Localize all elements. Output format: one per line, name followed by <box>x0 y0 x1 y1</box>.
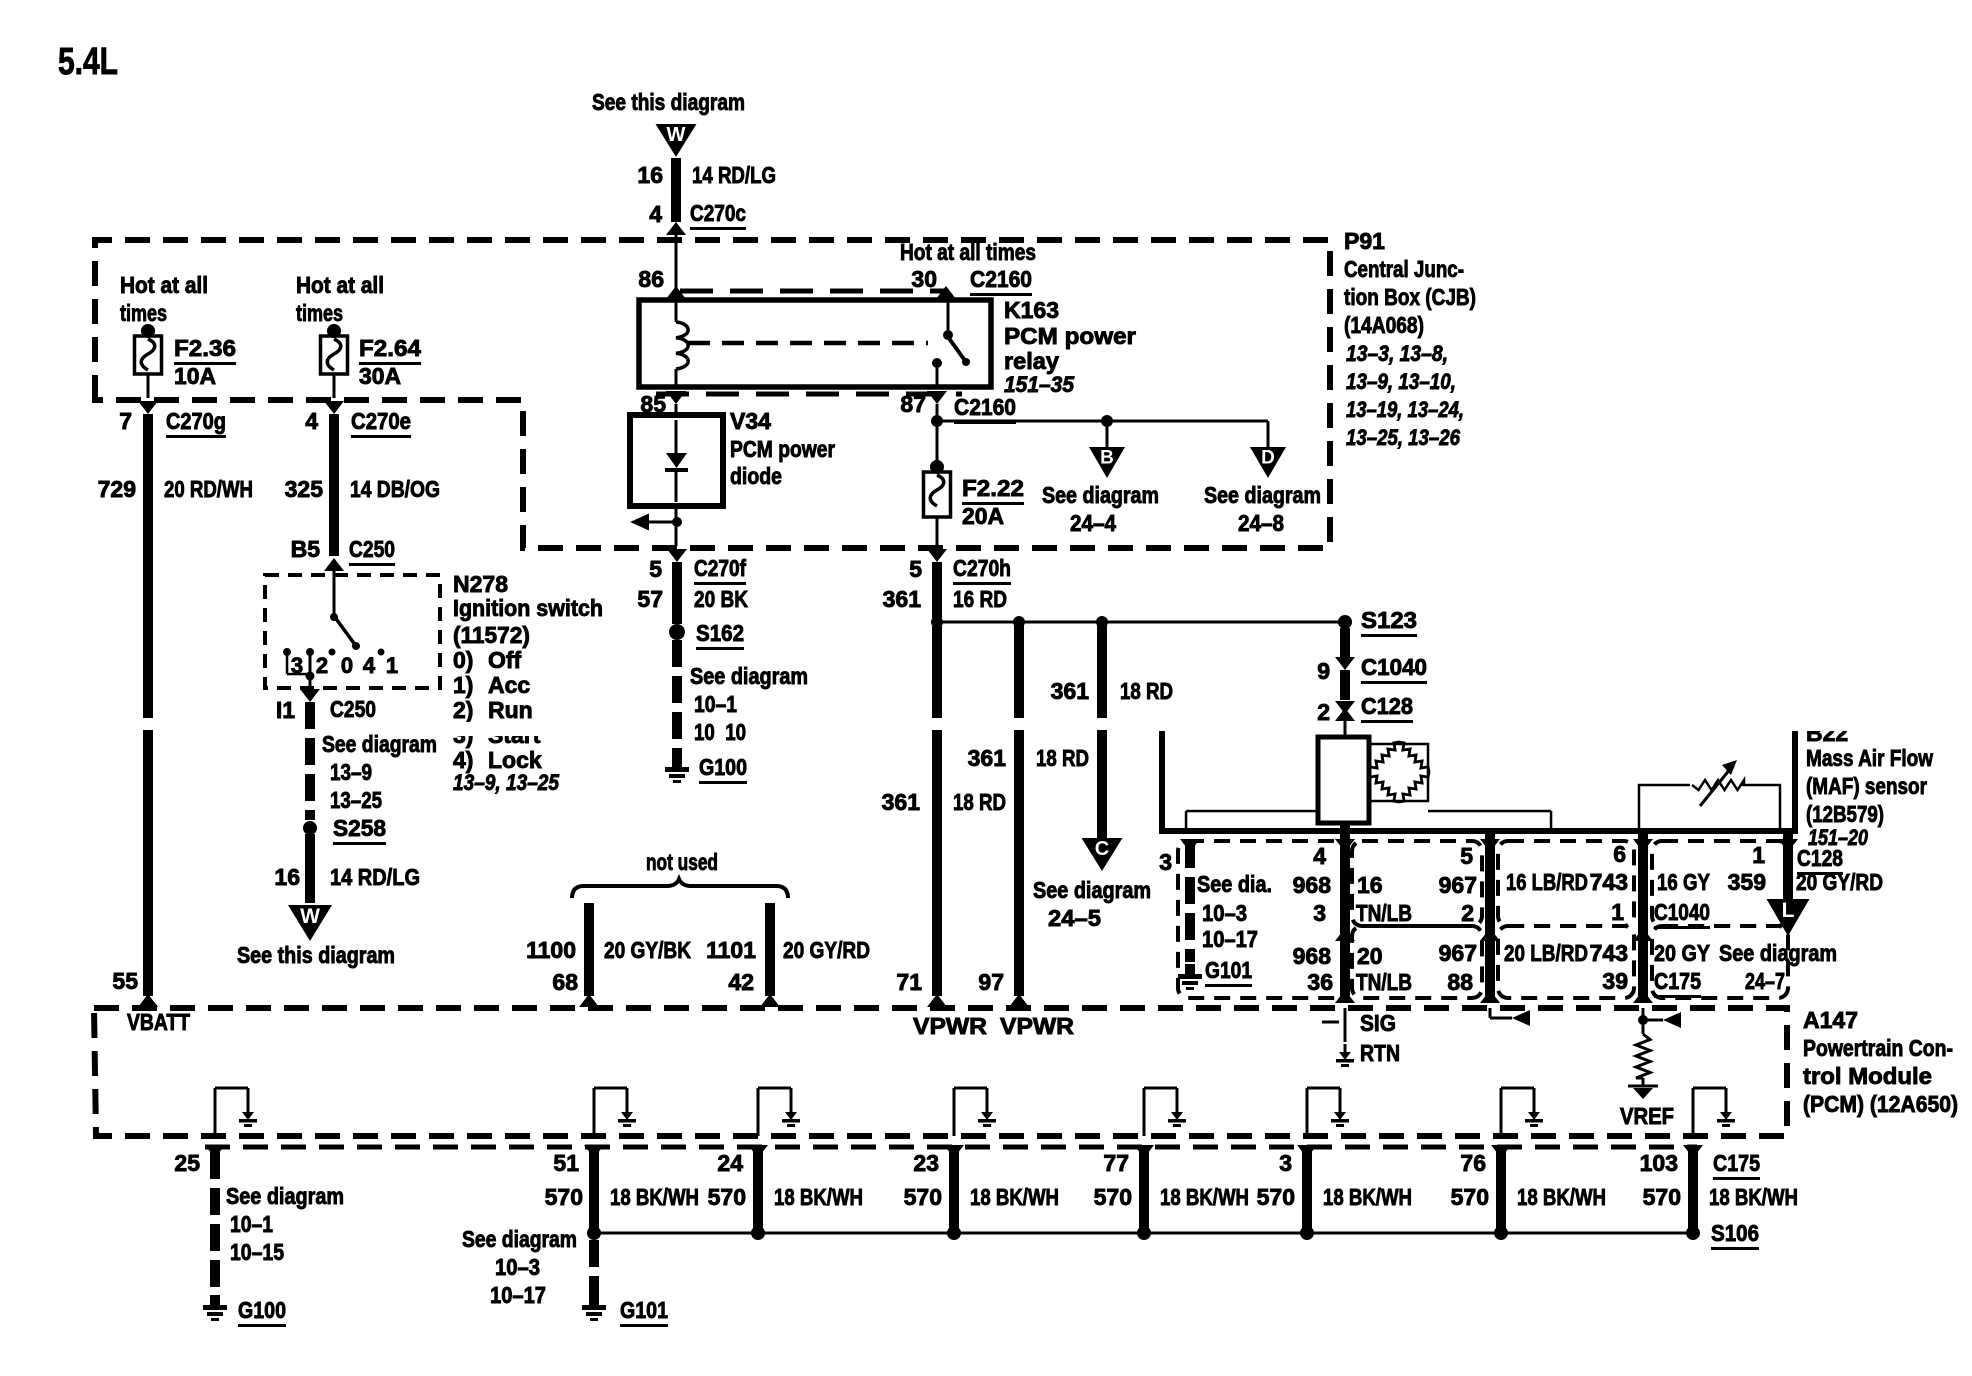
svg-text:2: 2 <box>1461 900 1474 926</box>
svg-text:See diagram: See diagram <box>1042 482 1159 508</box>
svg-text:Mass Air Flow: Mass Air Flow <box>1806 745 1933 771</box>
svg-text:10A: 10A <box>174 363 216 389</box>
svg-text:14 RD/LG: 14 RD/LG <box>330 864 420 890</box>
arrow pin4 row2 <box>1335 928 1355 941</box>
relay switch blade <box>948 337 966 362</box>
svg-text:F2.64: F2.64 <box>359 335 421 361</box>
connector L triangle <box>1767 899 1810 936</box>
svg-text:See diagram: See diagram <box>1204 482 1321 508</box>
svg-text:24: 24 <box>717 1150 743 1176</box>
dashed connector line above relay <box>680 289 944 294</box>
svg-text:967: 967 <box>1439 872 1477 898</box>
svg-text:30: 30 <box>911 266 937 292</box>
wire 361 16 RD <box>932 562 942 618</box>
wire C270c to relay coil <box>675 234 678 322</box>
VPWR distribution wire <box>937 621 1345 624</box>
svg-text:361: 361 <box>968 745 1007 771</box>
svg-text:570: 570 <box>1094 1184 1132 1210</box>
svg-text:68: 68 <box>552 969 578 995</box>
svg-text:20: 20 <box>1357 943 1383 969</box>
svg-text:18 BK/WH: 18 BK/WH <box>970 1184 1059 1210</box>
svg-text:See this diagram: See this diagram <box>237 942 395 968</box>
label minus <box>1322 1021 1339 1024</box>
svg-text:4: 4 <box>649 201 662 227</box>
wire 85 to diode <box>675 404 678 417</box>
arrow into C1040 <box>1335 657 1355 670</box>
svg-text:C128: C128 <box>1361 693 1413 719</box>
wire coil to relay bottom <box>675 369 678 387</box>
svg-text:359: 359 <box>1728 869 1766 895</box>
svg-text:16: 16 <box>274 864 300 890</box>
connector W triangle <box>656 124 697 157</box>
wire diode to CJB edge <box>675 506 678 546</box>
svg-text:times: times <box>120 300 167 326</box>
svg-text:C270e: C270e <box>351 408 411 434</box>
svg-text:Run: Run <box>488 697 533 723</box>
diode symbol <box>675 420 678 453</box>
wire 729 20 RD/WH (VBATT) upper <box>143 414 153 718</box>
svg-text:325: 325 <box>285 476 324 502</box>
ground SIG RTN <box>1344 1044 1347 1052</box>
svg-text:(11572): (11572) <box>453 622 530 648</box>
connector cell D row2 <box>1652 926 1788 998</box>
svg-text:See diagram: See diagram <box>690 663 808 689</box>
svg-text:Hot at all times: Hot at all times <box>900 239 1036 265</box>
wire to C triangle upper <box>1097 622 1107 718</box>
wire pin 51 <box>589 1150 599 1233</box>
svg-text:VPWR: VPWR <box>913 1013 987 1039</box>
svg-text:18 BK/WH: 18 BK/WH <box>1323 1184 1412 1210</box>
svg-text:C175: C175 <box>1713 1150 1760 1176</box>
MAF variable resistor zigzag <box>1692 780 1744 790</box>
svg-text:18 BK/WH: 18 BK/WH <box>1517 1184 1606 1210</box>
svg-text:20 GY/RD: 20 GY/RD <box>783 937 870 963</box>
ground bus S106 <box>594 1232 1693 1235</box>
svg-text:25: 25 <box>174 1150 200 1176</box>
wire VPWR pin 97 upper <box>1014 622 1024 718</box>
splice S123 <box>1338 615 1352 629</box>
svg-text:16: 16 <box>1357 872 1383 898</box>
svg-text:10–3: 10–3 <box>1202 900 1247 926</box>
svg-text:6: 6 <box>1613 841 1626 867</box>
relay switch contact 30 <box>943 330 953 340</box>
svg-text:PCM power: PCM power <box>1004 323 1136 349</box>
fuse F2.64 <box>321 336 348 374</box>
svg-text:968: 968 <box>1293 943 1332 969</box>
wire down to D triangle <box>1267 421 1270 447</box>
svg-text:VBATT: VBATT <box>127 1009 190 1035</box>
stub 743 input <box>1638 1015 1648 1025</box>
svg-text:W: W <box>300 905 320 928</box>
ground G101 (bottom) <box>589 1295 599 1305</box>
svg-text:9: 9 <box>1317 658 1330 684</box>
svg-text:3: 3 <box>1313 900 1326 926</box>
junction dot B branch <box>1101 415 1113 427</box>
wire down to B triangle <box>1106 421 1109 447</box>
svg-text:K163: K163 <box>1004 297 1059 323</box>
svg-text:361: 361 <box>883 586 922 612</box>
svg-text:20 BK: 20 BK <box>694 586 748 612</box>
svg-text:5: 5 <box>909 556 922 582</box>
svg-text:13–25: 13–25 <box>330 787 382 813</box>
svg-text:diode: diode <box>730 463 782 489</box>
MAF element inner box <box>1369 744 1428 801</box>
junction dot G101 wire <box>587 1226 601 1240</box>
svg-text:729: 729 <box>98 476 136 502</box>
svg-text:2): 2) <box>453 697 473 723</box>
svg-text:14 RD/LG: 14 RD/LG <box>692 162 776 188</box>
svg-text:B: B <box>1100 447 1114 468</box>
svg-text:(MAF) sensor: (MAF) sensor <box>1806 773 1927 799</box>
MAF thermistor diamond <box>1369 742 1429 802</box>
wire from contact 3 down <box>309 652 312 688</box>
svg-text:SIG: SIG <box>1360 1010 1396 1036</box>
MAF variable resistor box <box>1639 785 1780 831</box>
svg-text:See diagram: See diagram <box>462 1226 577 1252</box>
connector cell A (pins 3/4) <box>1178 841 1343 998</box>
svg-text:24–7: 24–7 <box>1745 968 1785 994</box>
svg-text:18 RD: 18 RD <box>953 789 1006 815</box>
wire SIG RTN <box>1344 1008 1347 1042</box>
fuse F2.36 <box>135 336 162 374</box>
junction dot branch C <box>1096 616 1108 628</box>
svg-text:967: 967 <box>1439 940 1477 966</box>
svg-text:See this diagram: See this diagram <box>592 89 745 115</box>
svg-text:18 RD: 18 RD <box>1036 745 1089 771</box>
svg-text:G101: G101 <box>620 1297 668 1323</box>
connector C triangle <box>1082 838 1123 871</box>
svg-text:Hot at all: Hot at all <box>296 272 384 298</box>
arrow pin4 row1 <box>1335 839 1355 852</box>
relay switch terminal 87 <box>932 358 942 368</box>
svg-text:4: 4 <box>363 653 376 678</box>
wire I1 to S258 dashed <box>305 702 315 729</box>
diode V34 box <box>630 415 723 506</box>
svg-text:39: 39 <box>1602 968 1628 994</box>
svg-text:See diagram: See diagram <box>322 731 437 757</box>
svg-text:570: 570 <box>1451 1184 1489 1210</box>
MAF sensing element box <box>1318 737 1369 823</box>
svg-text:C270c: C270c <box>690 200 746 226</box>
switch contact dots <box>329 649 336 656</box>
svg-text:570: 570 <box>1643 1184 1681 1210</box>
svg-text:743: 743 <box>1590 869 1628 895</box>
svg-text:See dia.: See dia. <box>1197 871 1272 897</box>
wire 14 RD/LG from W <box>671 158 681 222</box>
arrow continue left <box>646 521 677 524</box>
svg-text:88: 88 <box>1447 969 1473 995</box>
svg-text:I1: I1 <box>276 697 295 723</box>
wire MAF pin4 968 <box>1340 823 1350 996</box>
wire 51 to G101 dashed <box>589 1240 599 1267</box>
svg-text:Central Junc-: Central Junc- <box>1344 256 1464 282</box>
svg-text:See diagram: See diagram <box>1033 877 1151 903</box>
svg-text:(PCM) (12A650): (PCM) (12A650) <box>1803 1091 1958 1117</box>
svg-text:N278: N278 <box>453 571 508 597</box>
connector cell B row1 (pin 5) <box>1352 841 1482 926</box>
svg-text:Hot at all: Hot at all <box>120 272 208 298</box>
splice S258 <box>303 821 317 835</box>
arrow pin6 pcm <box>1633 990 1653 1003</box>
svg-text:13–3, 13–8,: 13–3, 13–8, <box>1346 341 1448 366</box>
junction dot VPWR 2 <box>1013 616 1025 628</box>
svg-text:968: 968 <box>1293 872 1332 898</box>
svg-text:14 DB/OG: 14 DB/OG <box>350 476 440 502</box>
svg-text:C175: C175 <box>1654 968 1701 994</box>
wire MAF pin3 to G101 dashed <box>1185 841 1195 868</box>
arrow out of CJB at C270f <box>667 549 687 562</box>
arrow into C250 ignition switch <box>324 558 344 571</box>
svg-text:TN/LB: TN/LB <box>1356 969 1412 995</box>
wire 87 to junction <box>936 404 939 421</box>
arrow out of CJB at C270e <box>324 401 344 414</box>
svg-text:103: 103 <box>1640 1150 1678 1176</box>
svg-text:77: 77 <box>1103 1150 1129 1176</box>
svg-text:10–17: 10–17 <box>490 1282 546 1308</box>
svg-text:16 GY: 16 GY <box>1657 869 1710 895</box>
svg-text:57: 57 <box>637 586 663 612</box>
svg-text:S258: S258 <box>333 815 386 841</box>
svg-text:G101: G101 <box>1205 957 1252 983</box>
svg-text:See diagram: See diagram <box>1719 940 1837 966</box>
svg-text:13–19, 13–24,: 13–19, 13–24, <box>1346 397 1464 422</box>
wire S123 down <box>1340 628 1350 658</box>
connector cell D row1 (pin 1) <box>1652 841 1788 926</box>
wire VPWR pin 71 upper <box>932 626 942 718</box>
svg-text:10–1: 10–1 <box>694 691 737 717</box>
svg-text:87: 87 <box>900 391 926 417</box>
svg-text:18 RD: 18 RD <box>1120 678 1173 704</box>
svg-text:42: 42 <box>728 969 754 995</box>
wire C1040 to C128 <box>1340 670 1350 700</box>
wire 1100 20 GY/BK <box>584 903 594 996</box>
switch contact terminals pin 3 <box>283 648 291 656</box>
svg-text:13–9, 13–25: 13–9, 13–25 <box>453 770 560 795</box>
svg-text:10–1: 10–1 <box>230 1211 273 1237</box>
Central Junction Box P91 dashed outline <box>95 240 1330 548</box>
arrow pin5 pcm <box>1480 990 1500 1003</box>
wire to C triangle lower <box>1097 730 1107 838</box>
relay internal dashed link <box>688 341 928 346</box>
svg-text:C2160: C2160 <box>970 266 1032 292</box>
svg-text:(14A068): (14A068) <box>1344 312 1424 338</box>
junction dot 87 <box>931 415 943 427</box>
svg-text:C270h: C270h <box>953 555 1011 581</box>
svg-text:30A: 30A <box>359 363 401 389</box>
svg-text:2: 2 <box>316 653 328 678</box>
ignition switch N278 dashed box <box>265 575 440 688</box>
relay coil <box>676 322 688 369</box>
svg-text:C270f: C270f <box>694 555 746 581</box>
wire stub into MAF element <box>1344 720 1347 738</box>
wires PCM pins to ground bus <box>753 1150 763 1233</box>
svg-text:Off: Off <box>488 647 522 673</box>
svg-text:1: 1 <box>386 653 398 678</box>
arrows out of PCM bottom pins <box>205 1145 225 1158</box>
svg-text:570: 570 <box>545 1184 583 1210</box>
wire 1101 20 GY/RD <box>765 903 775 996</box>
svg-text:VREF: VREF <box>1620 1103 1674 1129</box>
svg-text:570: 570 <box>1257 1184 1295 1210</box>
svg-text:2: 2 <box>1317 699 1330 725</box>
svg-text:See diagram: See diagram <box>226 1183 344 1209</box>
svg-text:S106: S106 <box>1711 1220 1759 1246</box>
arrow into PCM pin 71 <box>927 994 947 1007</box>
wire MAF pin1 359 <box>1783 831 1793 900</box>
svg-text:570: 570 <box>904 1184 942 1210</box>
svg-text:55: 55 <box>112 968 138 994</box>
svg-text:C250: C250 <box>349 536 395 562</box>
arrow pin6 row2 <box>1633 928 1653 941</box>
wire 57 20 BK <box>672 562 682 624</box>
wire junction to fuse F2.22 <box>936 421 939 468</box>
resistor VREF <box>1642 1008 1645 1034</box>
wire fuse F2.36 to CJB edge <box>147 374 150 398</box>
VREF node <box>1642 1078 1645 1086</box>
svg-text:570: 570 <box>708 1184 746 1210</box>
MAF internal wire left <box>1186 810 1318 813</box>
svg-text:16 LB/RD: 16 LB/RD <box>1506 869 1588 895</box>
arrow out of CJB at C270g <box>138 401 158 414</box>
svg-text:361: 361 <box>882 789 921 815</box>
svg-text:times: times <box>296 300 343 326</box>
wire S258 to W <box>305 834 315 903</box>
svg-text:not used: not used <box>646 849 718 875</box>
connector cell C row2 <box>1498 926 1634 998</box>
svg-text:Powertrain Con-: Powertrain Con- <box>1803 1035 1953 1061</box>
connector cell C row1 (pin 6) <box>1498 841 1634 926</box>
svg-text:20 GY: 20 GY <box>1654 940 1710 966</box>
wire 729 20 RD/WH (VBATT) lower <box>143 730 153 996</box>
MAF variable resistor arrow <box>1700 768 1731 806</box>
svg-text:24–8: 24–8 <box>1238 510 1284 536</box>
arrow 85 out of relay <box>666 391 686 404</box>
ground G100 (upper) <box>672 757 682 767</box>
arrow out of CJB at C270h <box>927 549 947 562</box>
svg-text:36: 36 <box>1307 969 1333 995</box>
wire S162 to G100 dashed <box>672 640 682 667</box>
svg-text:3: 3 <box>291 653 303 678</box>
svg-text:RTN: RTN <box>1360 1040 1400 1066</box>
svg-text:20 RD/WH: 20 RD/WH <box>164 476 253 502</box>
fuse F2.22 <box>924 472 951 517</box>
brace not used <box>572 879 788 898</box>
svg-text:7: 7 <box>119 408 132 434</box>
arrow pin5 row1 <box>1480 839 1500 852</box>
svg-text:5: 5 <box>649 556 662 582</box>
wire MAF pin5 967 <box>1485 831 1495 996</box>
svg-text:71: 71 <box>896 969 922 995</box>
junction below diode <box>672 517 682 527</box>
arrow into PCM pin 97 <box>1009 994 1029 1007</box>
svg-text:P91: P91 <box>1344 228 1385 254</box>
svg-text:16 RD: 16 RD <box>953 586 1007 612</box>
svg-text:18 BK/WH: 18 BK/WH <box>1709 1184 1798 1210</box>
svg-text:24–5: 24–5 <box>1048 905 1101 931</box>
connector W triangle (bottom) <box>288 905 332 941</box>
svg-text:24–4: 24–4 <box>1070 510 1116 536</box>
ground G101 (MAF) <box>1185 964 1195 974</box>
svg-text:3: 3 <box>1159 849 1172 875</box>
svg-text:18 BK/WH: 18 BK/WH <box>1160 1184 1249 1210</box>
svg-text:97: 97 <box>978 969 1004 995</box>
svg-text:0): 0) <box>453 647 473 673</box>
ground G100 (bottom) <box>210 1295 220 1305</box>
svg-text:20 GY/RD: 20 GY/RD <box>1796 869 1883 895</box>
dashed connector line below relay <box>656 392 962 397</box>
svg-text:C1040: C1040 <box>1654 899 1710 925</box>
svg-text:5: 5 <box>1460 843 1473 869</box>
svg-text:5.4L: 5.4L <box>58 41 118 83</box>
svg-text:10–15: 10–15 <box>230 1239 284 1265</box>
svg-text:A147: A147 <box>1803 1007 1858 1033</box>
svg-text:13–9, 13–10,: 13–9, 13–10, <box>1346 369 1456 394</box>
svg-text:4: 4 <box>1313 843 1326 869</box>
wire MAF pin6 743 <box>1638 831 1648 996</box>
arrow 87 out of relay <box>927 391 947 404</box>
svg-text:Ignition switch: Ignition switch <box>453 595 603 621</box>
connector B triangle <box>1089 447 1125 478</box>
svg-text:20A: 20A <box>962 503 1004 529</box>
svg-text:F2.36: F2.36 <box>174 335 236 361</box>
svg-text:D: D <box>1261 447 1275 468</box>
svg-text:743: 743 <box>1590 940 1628 966</box>
svg-text:13–9: 13–9 <box>330 759 372 785</box>
arrow pin 68 <box>579 994 599 1007</box>
svg-text:trol Module: trol Module <box>1803 1063 1932 1089</box>
svg-text:PCM power: PCM power <box>730 436 835 462</box>
svg-text:1100: 1100 <box>526 937 576 963</box>
svg-text:13–25, 13–26: 13–25, 13–26 <box>1346 425 1461 450</box>
wire pin 25 to G100 dashed <box>210 1152 220 1179</box>
PCM internal ground pigtails <box>214 1088 217 1136</box>
arrow pin6 row1 <box>1633 839 1653 852</box>
arrow out of ignition switch <box>300 689 320 702</box>
svg-text:G100: G100 <box>699 754 747 780</box>
svg-text:16: 16 <box>637 162 663 188</box>
MAF internal wire right <box>1428 810 1551 813</box>
svg-text:B5: B5 <box>291 536 321 562</box>
svg-text:3: 3 <box>1279 1150 1292 1176</box>
svg-text:TN/LB: TN/LB <box>1356 900 1412 926</box>
PCM connector row dashed line <box>205 1145 1697 1150</box>
wire 325 14 DB/OG <box>329 414 339 556</box>
svg-text:C1040: C1040 <box>1361 654 1427 680</box>
svg-text:C: C <box>1095 838 1109 860</box>
connector cell B row2 <box>1352 926 1482 998</box>
svg-text:C250: C250 <box>330 696 376 722</box>
svg-text:C270g: C270g <box>166 408 226 434</box>
splice S162 <box>669 624 685 640</box>
svg-text:VPWR: VPWR <box>1000 1013 1074 1039</box>
svg-text:76: 76 <box>1460 1150 1486 1176</box>
svg-text:10–17: 10–17 <box>1202 926 1258 952</box>
svg-text:W: W <box>667 124 686 146</box>
MAF sensor outline <box>1162 731 1795 831</box>
svg-text:L: L <box>1782 899 1795 922</box>
arrow 30 into relay row <box>936 286 956 299</box>
stub 967 input <box>1489 1008 1492 1018</box>
svg-text:18 BK/WH: 18 BK/WH <box>774 1184 863 1210</box>
svg-text:S162: S162 <box>696 620 744 646</box>
svg-text:4: 4 <box>305 408 318 434</box>
PCM A147 dashed outline <box>94 1008 1787 1136</box>
svg-text:86: 86 <box>638 266 664 292</box>
svg-text:1): 1) <box>453 672 473 698</box>
svg-text:relay: relay <box>1004 348 1059 374</box>
arrow MAF pin 3 <box>1180 839 1200 852</box>
junction dot VPWR main <box>931 616 943 628</box>
